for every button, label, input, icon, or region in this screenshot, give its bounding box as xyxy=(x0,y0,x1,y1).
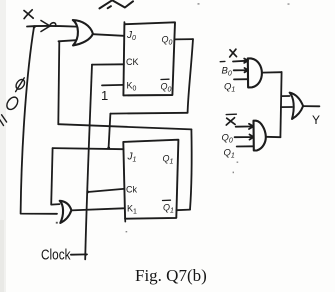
label x top-right xyxy=(230,49,237,57)
wire G4 input Q0bar xyxy=(234,68,248,72)
wire G4 input x xyxy=(233,59,248,63)
wire Q0 output right xyxy=(175,38,193,40)
wire G5 input Q1b xyxy=(237,145,254,147)
wire G1 lower input xyxy=(59,40,77,41)
wire J1 input row xyxy=(53,148,124,149)
wire Q0 drop to J1 row xyxy=(109,114,111,148)
wire clock stub xyxy=(71,253,87,255)
wire G1 output to J0 xyxy=(93,34,124,36)
wire G5 input Q0 with arrowhead xyxy=(235,135,254,140)
wire Q0 horizontal mid xyxy=(110,112,187,115)
wire x input horizontal xyxy=(27,25,76,28)
arrow symbol on x wire xyxy=(41,21,50,32)
junction J1 tee xyxy=(107,147,110,150)
wire vertical join OR xyxy=(280,72,281,137)
svg-text:Ck: Ck xyxy=(126,185,137,195)
wire G5 input xbar with arrowhead xyxy=(236,124,254,129)
wire clock vertical xyxy=(85,65,92,260)
wire CK0 input xyxy=(92,63,124,65)
wire vertical up to G1 lower input xyxy=(58,42,59,125)
wire G2 output to K1 xyxy=(71,208,123,210)
marginalia scribble left xyxy=(0,78,26,126)
wire down to G2 upper input xyxy=(51,148,59,205)
wire CK1 input xyxy=(88,189,124,192)
JK flip-flop U1 box xyxy=(123,140,178,219)
svg-text:1: 1 xyxy=(101,88,108,103)
svg-text:Clock: Clock xyxy=(41,248,71,264)
wire Y output xyxy=(303,105,319,107)
OR gate G1 xyxy=(73,20,93,45)
svg-text:Y: Y xyxy=(312,113,320,127)
wire G3 bottom input xyxy=(281,106,292,108)
junction clock stub xyxy=(84,253,87,256)
wire Q0 vertical down xyxy=(188,39,193,113)
wire G4 output xyxy=(262,71,282,73)
wire K0 constant input xyxy=(102,84,124,87)
wire Q1bar output xyxy=(176,209,190,212)
wire G5 output xyxy=(266,136,281,138)
svg-text:Fig. Q7(b): Fig. Q7(b) xyxy=(135,266,207,285)
wire G3 top input xyxy=(281,95,289,97)
wire Q1bar vertical up xyxy=(190,129,192,209)
JK flip-flop U0 box xyxy=(123,22,175,95)
label xbar xyxy=(226,118,235,125)
node X label xyxy=(24,10,33,19)
wire Q1bar horizontal to G1 xyxy=(58,124,191,129)
scribble top xyxy=(100,0,134,8)
OR gate G3 xyxy=(290,93,304,119)
AND gate G5 xyxy=(254,121,266,151)
junction clock tee xyxy=(86,191,89,194)
wire G4 input Q1 xyxy=(234,78,248,80)
svg-text:CK: CK xyxy=(126,57,139,67)
OR gate G2 xyxy=(60,201,72,223)
AND gate G4 xyxy=(248,58,262,87)
junction x wire xyxy=(33,25,36,28)
wire x vertical long left xyxy=(21,27,57,214)
